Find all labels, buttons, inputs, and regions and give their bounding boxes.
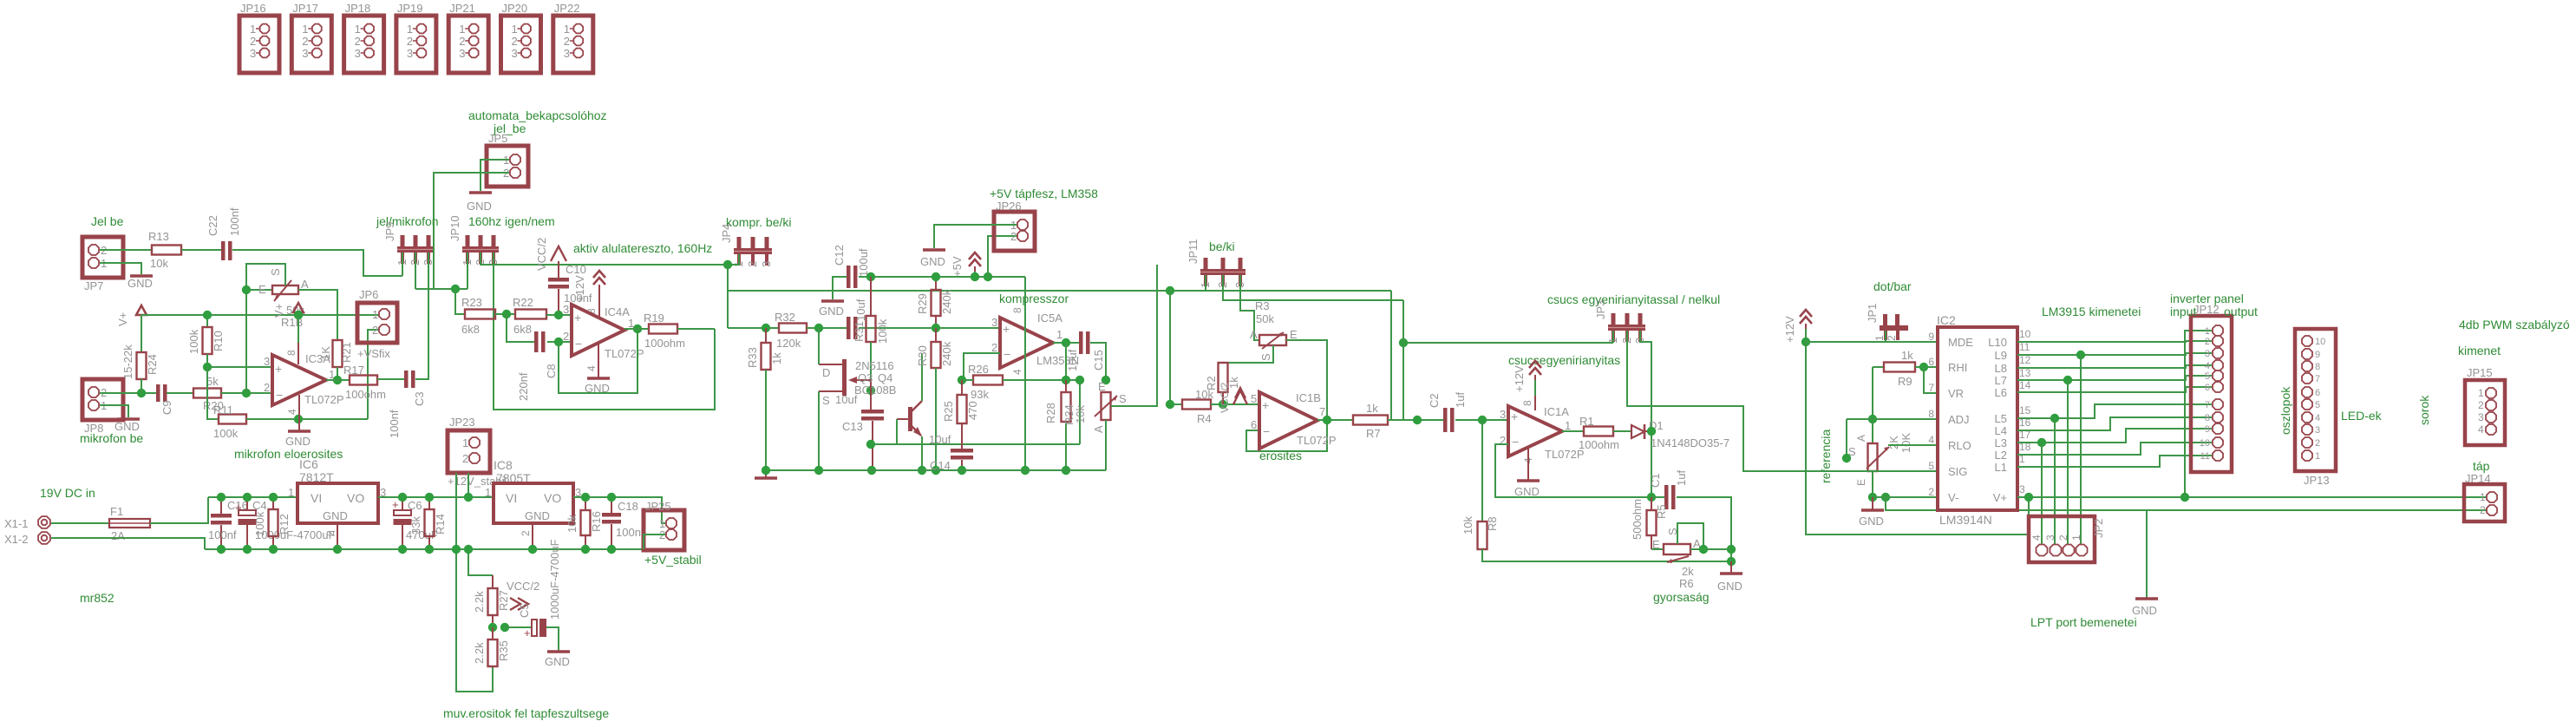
svg-text:kompresszor: kompresszor [999, 292, 1069, 305]
svg-text:JP22: JP22 [554, 2, 580, 15]
svg-text:4: 4 [585, 365, 598, 371]
svg-text:5: 5 [1251, 392, 1257, 405]
connector JP2 [2029, 516, 2095, 562]
svg-text:+12V: +12V [1783, 316, 1796, 343]
connector JP20 [501, 16, 541, 73]
svg-text:4db PWM szabályzó: 4db PWM szabályzó [2459, 318, 2570, 331]
svg-text:10: 10 [2019, 328, 2031, 340]
wire RLO row [1888, 444, 1938, 446]
svg-text:input: input [2170, 305, 2196, 318]
svg-text:L2: L2 [1995, 449, 2007, 462]
ground right [2146, 510, 2148, 597]
svg-text:100ohm: 100ohm [644, 337, 685, 350]
wire jel be [100, 249, 152, 251]
svg-text:1k: 1k [770, 352, 783, 364]
svg-text:7: 7 [2205, 400, 2210, 410]
svg-text:R14: R14 [434, 514, 447, 535]
svg-text:IC1B: IC1B [1296, 391, 1321, 404]
svg-text:2: 2 [2478, 399, 2484, 411]
node pin3 [203, 363, 212, 371]
svg-text:1: 1 [1873, 335, 1886, 341]
svg-text:1: 1 [288, 486, 294, 499]
power VCC/2 arrow right [510, 598, 520, 610]
svg-text:+5V tápfesz, LM358: +5V tápfesz, LM358 [990, 187, 1098, 200]
svg-text:output: output [2224, 305, 2258, 318]
wire JP4 pin1 [728, 254, 739, 265]
svg-text:+: + [1262, 398, 1269, 412]
connector JP15 [2465, 380, 2505, 445]
wire bias divider [207, 367, 219, 419]
svg-text:3: 3 [563, 303, 569, 316]
svg-text:R17: R17 [343, 364, 364, 377]
svg-text:LED-ek: LED-ek [2341, 409, 2383, 423]
connector JP21 [448, 16, 488, 73]
svg-text:sorok: sorok [2417, 395, 2431, 425]
wire ADJ row [1847, 418, 1938, 420]
wire ground rail compressor [766, 469, 1106, 471]
wire output [624, 328, 649, 330]
resistor R11 [219, 415, 246, 424]
connector JP9 [401, 235, 405, 246]
resistor R29 240k [935, 277, 937, 290]
connector JP3 [1612, 313, 1616, 325]
wire R4 to pin5 [1211, 403, 1259, 405]
svg-text:8: 8 [2315, 362, 2320, 372]
svg-text:2: 2 [302, 35, 308, 48]
svg-text:R9: R9 [1898, 375, 1912, 388]
svg-text:1: 1 [2478, 387, 2484, 399]
ground [117, 417, 140, 421]
node R33 top [762, 324, 770, 332]
svg-text:VO: VO [347, 491, 364, 505]
svg-text:+: + [1003, 322, 1010, 336]
svg-text:C10: C10 [566, 263, 586, 276]
power V+ arrow 2 [293, 303, 304, 312]
wire pot E to V- [1872, 471, 1873, 497]
svg-text:10k: 10k [150, 257, 168, 270]
transistor Q3 2N5116 [842, 359, 847, 396]
svg-text:100nf: 100nf [388, 410, 401, 438]
svg-text:GND: GND [819, 305, 844, 318]
IC LM3914N IC2 [1938, 327, 2017, 510]
svg-text:inverter panel: inverter panel [2170, 292, 2244, 305]
ground [469, 191, 492, 194]
svg-text:120k: 120k [776, 337, 801, 350]
wire JP10 pin2 to kompr [481, 253, 728, 265]
svg-text:GND: GND [2132, 604, 2157, 617]
wire trimmer S to JP4 line [1111, 265, 1157, 406]
svg-text:9: 9 [1928, 331, 1934, 343]
wire C2 to IC1A pin3 [1455, 419, 1508, 421]
wire JP10 pin1 [467, 253, 468, 289]
svg-text:C8: C8 [545, 364, 558, 378]
svg-text:100uf: 100uf [857, 248, 870, 277]
wire V- to system ground [1886, 497, 2487, 510]
svg-text:4: 4 [1928, 434, 1934, 446]
svg-text:11: 11 [2200, 451, 2210, 462]
resistor R28 [1065, 380, 1067, 392]
svg-text:VCC/2: VCC/2 [1219, 382, 1231, 413]
svg-text:2: 2 [2057, 535, 2069, 541]
svg-text:VCC/2: VCC/2 [507, 580, 539, 593]
node C10 pin3 [554, 311, 563, 319]
connector JP18 [344, 16, 384, 73]
svg-text:A: A [301, 278, 309, 291]
capacitor C2 1uf [1443, 408, 1448, 432]
wire R8 bottom [1482, 549, 1731, 561]
svg-text:2A: 2A [111, 529, 125, 542]
svg-text:C13: C13 [842, 420, 863, 433]
connector JP25 [644, 510, 684, 550]
svg-text:100nf: 100nf [616, 526, 644, 539]
svg-text:R24: R24 [146, 354, 159, 375]
node divider mid [492, 615, 494, 627]
svg-text:X1-1: X1-1 [4, 517, 28, 530]
svg-text:2: 2 [1010, 230, 1017, 243]
capacitor C16 [220, 497, 222, 514]
svg-text:100k: 100k [253, 511, 266, 536]
svg-text:4: 4 [1011, 369, 1023, 375]
wire to R4 [1170, 291, 1182, 404]
wire signal to JP3 [1390, 291, 1392, 420]
svg-text:JP23: JP23 [449, 416, 475, 429]
diode D1 1N4148DO35-7 [1631, 425, 1644, 438]
svg-text:+: + [275, 362, 282, 376]
power +12V arrow IC1A [1529, 361, 1541, 368]
svg-text:JP9: JP9 [383, 222, 396, 241]
wire JP26 pin1 to ground [934, 225, 1017, 248]
svg-text:6k8: 6k8 [513, 323, 532, 336]
svg-text:6k8: 6k8 [461, 323, 480, 336]
svg-text:R11: R11 [213, 403, 233, 416]
svg-text:JP1: JP1 [1866, 304, 1879, 323]
svg-text:3: 3 [355, 47, 361, 60]
svg-text:C12: C12 [833, 245, 846, 266]
svg-text:R8: R8 [1486, 516, 1499, 531]
wire to JP6 pin2 [368, 330, 379, 419]
svg-text:R19: R19 [644, 312, 664, 325]
capacitor C5 [505, 626, 532, 628]
wires LM3914 outputs to JP12 [2017, 341, 2212, 342]
svg-text:E: E [1855, 479, 1867, 486]
svg-text:2: 2 [355, 35, 361, 48]
svg-text:SIG: SIG [1948, 465, 1967, 478]
svg-text:1: 1 [1565, 419, 1571, 432]
svg-text:1: 1 [372, 308, 378, 321]
svg-text:+: + [574, 311, 581, 325]
svg-text:C9: C9 [160, 400, 173, 415]
connector JP26 [994, 212, 1035, 251]
power +12V arrow [593, 271, 605, 278]
svg-text:+VSfix: +VSfix [357, 347, 390, 360]
svg-text:C15: C15 [1092, 350, 1105, 371]
svg-text:1: 1 [564, 23, 570, 36]
svg-text:3: 3 [760, 261, 773, 267]
svg-text:R3: R3 [1255, 299, 1270, 312]
svg-text:JP17: JP17 [292, 2, 318, 15]
svg-text:10k: 10k [1074, 405, 1087, 423]
svg-text:A: A [1855, 435, 1867, 442]
svg-text:RHI: RHI [1948, 361, 1967, 374]
svg-text:2N5116: 2N5116 [855, 359, 894, 372]
wire [181, 249, 221, 251]
wire C8 branch [507, 314, 534, 342]
wire R11 to GND pin4 [246, 418, 368, 420]
wire long to JP11 area [728, 290, 1391, 292]
svg-text:C18: C18 [618, 500, 638, 513]
capacitor C22 [221, 241, 226, 260]
svg-text:15: 15 [2019, 404, 2031, 416]
wire C3 to JP9 pin3 [415, 264, 428, 379]
resistor R2 1k [1219, 363, 1228, 392]
svg-text:160hz igen/nem: 160hz igen/nem [468, 214, 555, 228]
wire R1B S loop [246, 264, 285, 393]
resistor R9 1k [1873, 366, 1884, 368]
svg-text:R22: R22 [513, 296, 533, 309]
svg-text:1000uF-4700uF: 1000uF-4700uF [548, 539, 561, 620]
wire to pot S [1846, 419, 1847, 458]
node V+ pin8 [294, 311, 303, 319]
svg-text:S: S [269, 268, 282, 276]
svg-text:3: 3 [564, 47, 570, 60]
wire JP11 pin1 [1205, 275, 1206, 291]
ground [1517, 479, 1540, 482]
wire R1B A to R21 [298, 290, 337, 340]
wire R33 to ground rail [765, 370, 767, 470]
svg-text:2: 2 [324, 530, 337, 536]
node +12V [1801, 338, 1810, 346]
wire JP3 pin1 [1612, 331, 1614, 343]
wire IC1B output [1317, 419, 1353, 421]
node [1399, 338, 1408, 347]
svg-text:2: 2 [2205, 337, 2210, 347]
ground [765, 470, 767, 478]
node mic input junction [137, 389, 146, 397]
potentiometer R6 2k [1651, 548, 1664, 550]
svg-text:3: 3 [512, 47, 518, 60]
svg-text:+5V: +5V [951, 256, 964, 277]
svg-text:2: 2 [372, 324, 378, 337]
wire pin4 gnd [598, 344, 599, 378]
svg-text:470: 470 [966, 401, 979, 420]
ground [547, 650, 570, 653]
svg-text:A: A [1250, 328, 1258, 341]
svg-text:1: 1 [250, 23, 256, 36]
capacitor C6 [402, 497, 403, 510]
svg-text:3: 3 [2315, 425, 2320, 436]
wire output [326, 379, 350, 381]
wire R6 A [1690, 548, 1731, 550]
svg-text:LM3915 kimenetei: LM3915 kimenetei [2042, 305, 2141, 318]
connector JP8 [82, 379, 123, 420]
wire JP8 pin1 to ground [100, 405, 128, 417]
ground [923, 248, 945, 252]
wire IC6 gnd pin [337, 523, 338, 549]
wire [377, 378, 404, 380]
svg-text:S: S [1848, 445, 1856, 458]
wire [495, 313, 515, 315]
connector JP19 [396, 16, 436, 73]
svg-text:19V DC in: 19V DC in [40, 486, 95, 500]
node [1166, 286, 1174, 295]
svg-text:11: 11 [2019, 341, 2030, 353]
svg-text:E: E [1652, 538, 1660, 551]
svg-text:240k: 240k [940, 341, 953, 366]
svg-text:5: 5 [2205, 371, 2210, 382]
svg-text:2: 2 [563, 330, 569, 343]
resistor R31 [870, 277, 872, 316]
node [451, 285, 460, 293]
svg-text:2: 2 [1886, 335, 1898, 341]
wire pin4 to ground [298, 395, 300, 431]
wire JP5 pin2 [434, 173, 509, 289]
svg-text:220nf: 220nf [517, 372, 530, 401]
svg-text:R23: R23 [461, 296, 482, 309]
node V+ R10 [203, 311, 212, 319]
svg-text:JP4: JP4 [720, 224, 733, 243]
wire C12 left to ground [833, 277, 847, 299]
wire C5 to ground [546, 627, 559, 651]
wire MDE row [1806, 341, 1938, 343]
capacitor C11 10uf [847, 317, 851, 339]
svg-text:L3: L3 [1995, 436, 2007, 449]
resistor R24 [141, 315, 142, 352]
svg-text:2: 2 [264, 381, 270, 394]
wire signal row [728, 327, 779, 329]
wire pin8 supply [297, 315, 299, 343]
wire JP10 pin3 filter return loop [494, 253, 715, 410]
svg-text:E: E [1098, 380, 1106, 393]
svg-text:R21: R21 [340, 342, 353, 363]
wire V+ row to JP12 pin1 and JP14 [2017, 496, 2487, 498]
svg-text:+: + [1511, 410, 1518, 423]
potentiometer R1B [246, 289, 272, 291]
connector JP10 [466, 235, 470, 246]
svg-text:R10: R10 [212, 331, 225, 351]
svg-text:4: 4 [2315, 413, 2320, 423]
connector JP16 [239, 16, 279, 73]
node gate [866, 386, 875, 395]
svg-text:1: 1 [1056, 328, 1062, 341]
connector JP6 [357, 303, 397, 343]
svg-text:R7: R7 [1366, 427, 1381, 440]
wire trimmer bottom [1105, 420, 1107, 470]
wire [167, 392, 193, 394]
svg-text:automata_bekapcsolóhoz: automata_bekapcsolóhoz [468, 108, 607, 122]
svg-text:500ohm: 500ohm [1631, 499, 1644, 540]
svg-text:1: 1 [2070, 535, 2082, 541]
svg-text:R12: R12 [278, 514, 291, 535]
svg-text:R5: R5 [1655, 504, 1668, 519]
resistor R13 [152, 246, 181, 255]
wire R6 S loop [1677, 523, 1703, 549]
svg-text:2.2k: 2.2k [473, 591, 486, 613]
svg-text:6: 6 [1251, 418, 1257, 431]
svg-text:1uf: 1uf [1675, 470, 1688, 486]
svg-text:33k: 33k [409, 516, 422, 535]
node output IC4A [633, 325, 642, 333]
svg-text:GND: GND [1717, 580, 1742, 593]
svg-text:R13: R13 [148, 230, 169, 243]
svg-text:8: 8 [2205, 413, 2210, 423]
svg-text:C1: C1 [1649, 473, 1662, 488]
capacitor C14 10uf [961, 423, 963, 449]
svg-text:2: 2 [991, 341, 997, 354]
resistor R4 10k [1182, 400, 1211, 410]
svg-text:GND: GND [467, 200, 492, 213]
svg-text:10uf: 10uf [1066, 349, 1079, 371]
svg-text:GND: GND [114, 420, 140, 433]
svg-text:10k: 10k [566, 515, 579, 533]
svg-text:2: 2 [462, 452, 468, 465]
svg-text:−: − [1004, 347, 1010, 361]
svg-text:VR: VR [1948, 387, 1964, 400]
svg-text:oszlopok: oszlopok [2279, 386, 2292, 435]
svg-text:+12V: +12V [573, 275, 586, 302]
node pin2 IC4A [554, 338, 563, 346]
op-amp IC4A [572, 305, 624, 356]
svg-text:V+: V+ [272, 304, 285, 318]
svg-text:TL072P: TL072P [1297, 434, 1337, 447]
node output IC5A [1062, 338, 1070, 347]
ground [1720, 572, 1742, 575]
svg-text:IC5A: IC5A [1037, 312, 1062, 325]
svg-text:1k: 1k [1366, 402, 1378, 415]
svg-text:Q3: Q3 [858, 371, 873, 384]
svg-text:JP6: JP6 [359, 288, 378, 301]
wire gnd to JP25 pin2 [644, 535, 665, 549]
capacitor C1 1uf [1651, 496, 1664, 498]
svg-text:2: 2 [250, 35, 256, 48]
svg-text:RLO: RLO [1948, 439, 1971, 452]
node RHI [1919, 363, 1928, 371]
svg-text:4: 4 [2205, 361, 2210, 371]
resistor R21 [333, 340, 343, 367]
svg-text:JP16: JP16 [240, 2, 266, 15]
svg-text:100nf: 100nf [208, 528, 237, 541]
svg-text:X1-2: X1-2 [4, 533, 28, 546]
svg-text:6: 6 [2205, 383, 2210, 393]
svg-text:L4: L4 [1995, 424, 2007, 437]
svg-text:R28: R28 [1044, 403, 1057, 423]
svg-text:100ohm: 100ohm [345, 388, 386, 401]
svg-text:93k: 93k [971, 388, 989, 401]
wire to ground [1730, 561, 1732, 574]
node R31 top [866, 272, 875, 281]
svg-text:JP7: JP7 [84, 279, 103, 292]
svg-text:R26: R26 [968, 363, 989, 376]
svg-text:S: S [1119, 392, 1127, 405]
resistor R12 [272, 497, 274, 509]
svg-text:2: 2 [407, 35, 413, 48]
node E junction [242, 285, 251, 294]
svg-text:R25: R25 [942, 401, 955, 422]
svg-text:14: 14 [2019, 379, 2031, 391]
svg-text:240k: 240k [940, 289, 953, 314]
svg-text:GND: GND [525, 509, 550, 522]
svg-text:JP25: JP25 [645, 500, 671, 513]
svg-text:1: 1 [2205, 326, 2210, 337]
wire X1-2 to ground rail [51, 538, 205, 549]
svg-text:2: 2 [2480, 504, 2486, 516]
svg-text:3: 3 [1500, 408, 1506, 421]
wire JP3 pin3 to D1 node [1640, 331, 1651, 497]
wire +5V rail [573, 497, 665, 523]
svg-text:MDE: MDE [1948, 336, 1973, 349]
wire V- row [1873, 496, 1938, 498]
svg-text:R2: R2 [1205, 376, 1218, 390]
svg-text:1: 1 [2315, 451, 2320, 462]
